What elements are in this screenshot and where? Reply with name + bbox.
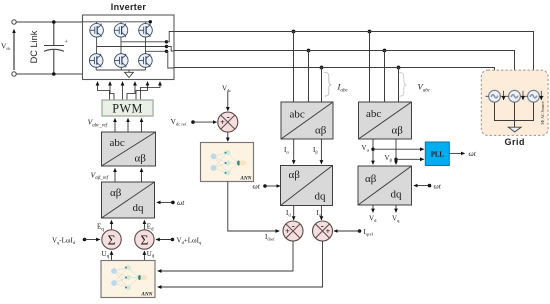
svg-text:αβ: αβ	[110, 187, 122, 199]
junction tap Ic	[320, 66, 324, 70]
svg-text:Vq-LωId: Vq-LωId	[52, 236, 76, 245]
block ab/dq left	[102, 182, 155, 218]
DC source terminal top	[12, 20, 16, 24]
transistor Q1	[90, 24, 104, 38]
ANN block mid	[201, 143, 254, 182]
svg-text:Vq: Vq	[392, 214, 400, 223]
wire phase B leg	[120, 37, 122, 54]
svg-text:Vabc: Vabc	[418, 82, 431, 94]
junction phase A	[165, 45, 168, 48]
transistor Q6	[139, 54, 153, 68]
junction wt mid	[263, 184, 267, 188]
svg-text:Eq: Eq	[97, 223, 104, 233]
junction tap Ib	[307, 49, 311, 53]
svg-text:αβ: αβ	[135, 152, 147, 164]
Vdc measurement arrow	[13, 30, 15, 71]
svg-text:Vd: Vd	[369, 214, 377, 223]
wire grid neutral mid	[514, 102, 516, 127]
wire tap Ic	[321, 68, 323, 102]
wire Vd stub	[156, 239, 172, 241]
junction Vd stub	[171, 238, 175, 242]
current arrow c	[540, 91, 542, 100]
wire Ed	[143, 221, 145, 230]
wire phase B exit	[167, 32, 175, 42]
block abc/ab right	[359, 102, 412, 139]
wire tap Vc	[398, 68, 400, 102]
svg-text:αβ: αβ	[315, 125, 327, 137]
wire grid neutral	[495, 102, 534, 120]
wire Vabc_ref 3	[141, 119, 143, 133]
junction wt right	[428, 184, 432, 188]
wire DC+	[16, 21, 82, 23]
wire wt into right dq	[414, 185, 430, 187]
svg-text:+: +	[65, 40, 69, 46]
ANN block bottom	[101, 261, 155, 298]
wire phase link 2	[520, 95, 527, 97]
wire tap Ia	[293, 32, 295, 102]
transistor Q3	[114, 24, 128, 38]
wire Vab_ref 1	[114, 169, 116, 183]
wire gate drive 2	[110, 82, 114, 100]
summer S2	[135, 230, 154, 249]
wire Vabc_ref 1	[114, 119, 116, 133]
svg-text:αβ: αβ	[289, 169, 301, 181]
comparator Vdc	[218, 112, 238, 132]
svg-text:Iβ: Iβ	[313, 146, 318, 155]
junction tap Va	[368, 30, 372, 34]
svg-text:+: +	[326, 227, 331, 236]
wire Vd out	[372, 205, 374, 212]
transistor Q2	[89, 54, 103, 68]
svg-text:PLL: PLL	[431, 151, 445, 158]
svg-text:dq: dq	[133, 202, 145, 214]
wire bus phase B	[174, 51, 515, 91]
wire Vab_ref 2	[141, 169, 143, 183]
wire Ud	[143, 251, 145, 260]
wire Iqref	[334, 230, 360, 232]
svg-text:Vαβ_ref: Vαβ_ref	[91, 170, 109, 181]
wire wt mid	[265, 185, 280, 187]
svg-text:DC Link: DC Link	[29, 30, 39, 63]
PLL block	[425, 142, 449, 166]
svg-text:ωt: ωt	[253, 181, 261, 190]
junction wt left	[171, 201, 175, 205]
wire bus phase A	[174, 32, 534, 91]
junction cap bottom	[52, 72, 56, 76]
svg-text:αβ: αβ	[365, 173, 377, 185]
svg-text:ANN: ANN	[239, 176, 251, 182]
wire phase link 1	[500, 95, 508, 97]
junction Valpha branch	[371, 148, 374, 151]
comparator Id	[283, 221, 303, 241]
wire Uq	[111, 251, 113, 260]
wire gate drive 3	[122, 82, 124, 100]
junction cap top	[52, 20, 56, 24]
junction Vdc ref	[191, 120, 195, 124]
junction Iqref	[358, 229, 362, 233]
grid box	[481, 70, 548, 135]
block abc/ab left	[102, 132, 156, 166]
AC source G1	[486, 90, 501, 102]
wire tap Va	[369, 32, 371, 102]
inverter box	[83, 15, 175, 80]
junction tap Vb	[383, 49, 387, 53]
svg-text:Iabc: Iabc	[337, 82, 349, 94]
svg-text:Σ: Σ	[108, 233, 116, 248]
wire phase A midline	[97, 46, 167, 48]
svg-text:Ud: Ud	[147, 250, 155, 260]
junction Vbeta branch	[394, 158, 397, 161]
svg-text:Vβ: Vβ	[385, 154, 393, 163]
wire Vdc ref	[193, 121, 217, 123]
wire Iq	[320, 206, 322, 220]
junction tap Vc	[397, 66, 401, 70]
svg-text:Vd+LωIq: Vd+LωIq	[177, 236, 202, 245]
wire Valpha	[372, 139, 374, 164]
svg-text:Idref: Idref	[265, 233, 275, 242]
svg-text:abc: abc	[290, 109, 305, 121]
svg-text:Vα: Vα	[362, 144, 370, 153]
summer S1	[102, 230, 121, 249]
wire DC-	[16, 73, 82, 75]
svg-text:ωt: ωt	[434, 181, 442, 190]
wire comparator to ANN	[227, 132, 229, 141]
svg-text:Id: Id	[286, 209, 291, 218]
svg-text:-: -	[292, 221, 295, 231]
svg-text:abc: abc	[110, 137, 125, 149]
wire tap Ib	[308, 51, 310, 102]
svg-text:Grid: Grid	[504, 137, 525, 147]
block ab/dq right	[358, 166, 412, 205]
wire phase A exit	[167, 47, 175, 52]
AC source G3	[528, 90, 540, 102]
ground (grid)	[508, 127, 521, 132]
svg-text:abc: abc	[366, 108, 381, 120]
brace Vabc	[399, 72, 406, 96]
wire gate drive 6	[141, 82, 161, 100]
svg-text:Iqref: Iqref	[364, 228, 374, 237]
wire Vq out	[395, 205, 397, 212]
transistor Q5	[139, 24, 153, 38]
junction phase B	[165, 40, 168, 43]
wire Id error to ANN	[158, 241, 293, 271]
wire Eq	[111, 221, 113, 230]
wire Ibeta	[320, 139, 322, 164]
svg-text:αβ: αβ	[392, 125, 404, 137]
AC source G2	[509, 90, 521, 102]
wire Valpha to PLL	[373, 148, 424, 150]
svg-text:-: -	[227, 112, 230, 122]
wire Vq stub	[85, 239, 100, 241]
svg-text:Vdc: Vdc	[1, 41, 11, 51]
svg-text:3Φ AC Source: 3Φ AC Source	[540, 101, 545, 125]
wire Ialpha	[293, 139, 295, 164]
svg-text:dq: dq	[391, 189, 403, 201]
capacitor C (DC link)	[44, 22, 64, 74]
wire phase C leg	[145, 37, 147, 54]
wire Iq error to ANN	[158, 241, 323, 287]
current arrow a	[503, 91, 505, 100]
brace Iabc	[324, 72, 331, 96]
wire Idref	[228, 182, 279, 232]
PWM block	[102, 100, 153, 116]
ground (inverter)	[125, 72, 134, 77]
svg-text:Inverter: Inverter	[111, 2, 147, 12]
svg-text:Vdc: Vdc	[222, 85, 231, 94]
svg-text:+: +	[220, 118, 225, 127]
junction tap Ia	[292, 30, 296, 34]
svg-text:-: -	[321, 221, 324, 231]
comparator Iq	[313, 221, 333, 241]
wire phase link 3	[539, 95, 543, 97]
transistor Q4	[115, 54, 129, 68]
wire PLL out	[449, 152, 464, 154]
svg-text:ωt: ωt	[469, 149, 477, 158]
wire gate drive 5	[136, 82, 148, 100]
svg-text:Iα: Iα	[284, 146, 289, 155]
wire phase B midline	[121, 41, 167, 43]
wire Vbeta to PLL	[396, 158, 424, 160]
wire gate drive 4	[127, 82, 135, 100]
junction Vq stub	[83, 238, 87, 242]
wire phase A leg	[96, 37, 98, 54]
wire DC+ rail	[83, 22, 151, 24]
wire bus phase C	[174, 68, 495, 91]
wire Vdc down	[227, 92, 229, 111]
junction rail	[149, 20, 152, 23]
wire Id	[293, 206, 295, 220]
wire Vabc_ref 2	[127, 119, 129, 133]
svg-text:Vdc ref: Vdc ref	[171, 117, 187, 127]
svg-text:Vabc_ref: Vabc_ref	[88, 118, 108, 129]
wire gate drive 1	[98, 82, 110, 100]
DC source terminal bottom	[12, 72, 16, 76]
junction phase C	[165, 50, 168, 53]
wire phase C midline	[146, 50, 167, 52]
svg-text:PWM: PWM	[112, 101, 143, 115]
block ab/dq mid	[281, 166, 333, 206]
svg-text:ANN: ANN	[140, 292, 152, 298]
wire DC- rail	[96, 67, 145, 72]
svg-text:ωt: ωt	[177, 198, 185, 207]
wire wt into left dq	[157, 201, 173, 203]
wire phase C exit	[167, 51, 175, 68]
svg-text:Σ: Σ	[140, 233, 148, 248]
svg-text:Uq: Uq	[102, 250, 110, 260]
current arrow b	[522, 91, 524, 100]
svg-text:dq: dq	[315, 191, 327, 203]
wire Vbeta	[395, 139, 397, 164]
block abc/ab mid	[281, 102, 333, 139]
wire tap Vb	[384, 51, 386, 102]
svg-text:+: +	[285, 227, 290, 236]
